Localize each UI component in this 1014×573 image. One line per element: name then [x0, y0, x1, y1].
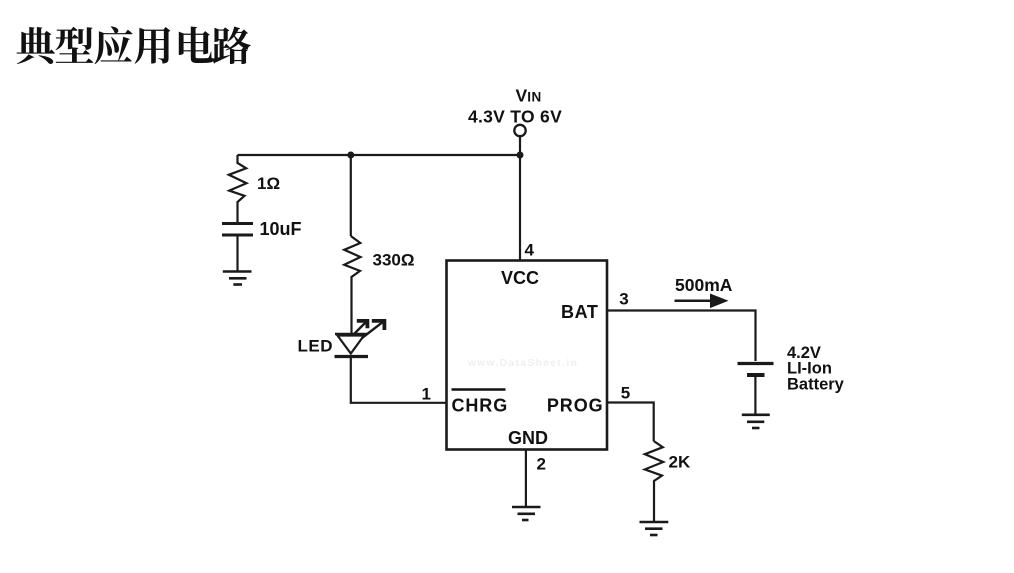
node: junction dot at VIN column	[517, 152, 524, 159]
svg-text:330Ω: 330Ω	[373, 251, 415, 270]
svg-text:www.DataSheet.in: www.DataSheet.in	[467, 358, 578, 369]
svg-text:500mA: 500mA	[675, 275, 733, 295]
wire: node down to R 330	[350, 155, 352, 236]
wire: BAT pin 3 to battery	[607, 311, 756, 362]
wire: LED cathode down and right to CHRG pin 1	[351, 357, 447, 403]
ground under capacitor	[223, 272, 252, 285]
wire: VIN terminal to node	[519, 136, 521, 155]
title char 用	[135, 27, 171, 64]
wire: VIN node down to VCC pin 4	[519, 155, 521, 261]
title char 型	[56, 27, 94, 63]
IC U1 body	[447, 261, 608, 450]
resistor R 330 ohm	[344, 236, 360, 333]
svg-text:GND: GND	[508, 428, 548, 448]
svg-text:1: 1	[422, 385, 431, 404]
svg-text:10uF: 10uF	[260, 219, 302, 239]
node: junction dot at 330 ohm column	[347, 152, 354, 159]
LED cathode bar	[335, 355, 369, 358]
terminal VIN (open circle)	[514, 125, 525, 136]
svg-text:BAT: BAT	[561, 302, 598, 322]
wire: PROG pin 5 to R 2K	[607, 403, 654, 442]
title char 电	[179, 26, 214, 62]
svg-text:4: 4	[525, 241, 535, 260]
title char 应	[95, 26, 133, 64]
ground under R 2K	[640, 522, 669, 535]
svg-text:PROG: PROG	[547, 396, 604, 416]
svg-text:VCC: VCC	[501, 268, 539, 288]
svg-text:LED: LED	[298, 337, 334, 356]
svg-text:CHRG: CHRG	[452, 396, 509, 416]
resistor R 2K	[645, 441, 663, 522]
battery BT1 positive plate	[738, 362, 774, 365]
wire: battery to ground	[754, 377, 756, 415]
svg-text:3: 3	[619, 290, 628, 309]
ground under battery	[742, 415, 770, 428]
svg-text:4.3V TO 6V: 4.3V TO 6V	[468, 107, 562, 127]
svg-text:1Ω: 1Ω	[257, 174, 280, 193]
wire: GND pin 2 to ground	[525, 450, 527, 507]
ground under GND pin	[512, 507, 541, 520]
LED light arrow 1	[353, 321, 368, 336]
current arrow 500mA	[675, 294, 729, 309]
wire: capacitor to ground	[236, 236, 238, 271]
resistor R 1 ohm	[229, 155, 247, 223]
capacitor C 10uF plate 2	[222, 234, 253, 237]
svg-text:2: 2	[537, 455, 546, 474]
title char 路	[212, 26, 251, 64]
svg-text:Battery: Battery	[787, 376, 845, 394]
LED light arrow 2	[362, 321, 384, 338]
capacitor C 10uF plate 1	[222, 222, 253, 225]
battery BT1 negative plate	[747, 373, 765, 377]
title char 典	[17, 27, 55, 64]
LED D1 anode bar and triangle	[335, 333, 367, 335]
svg-text:2K: 2K	[669, 453, 691, 472]
svg-text:5: 5	[621, 384, 630, 403]
wire: top rail from R1 top to VIN node	[238, 154, 521, 156]
